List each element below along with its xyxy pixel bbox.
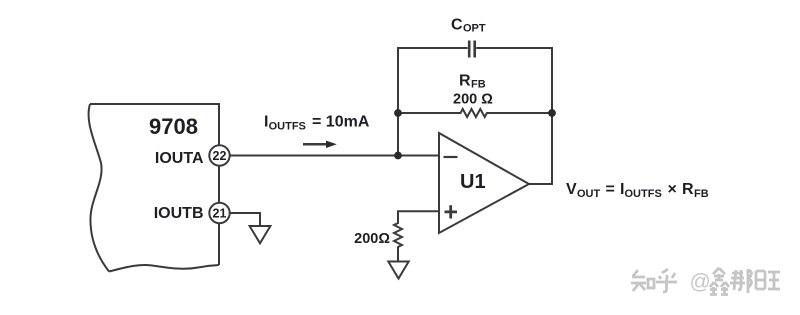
svg-text:21: 21	[213, 207, 227, 221]
svg-text:= 10mA: = 10mA	[312, 114, 370, 131]
svg-text:FB: FB	[471, 79, 486, 91]
svg-text:R: R	[682, 181, 694, 198]
svg-text:OUTFS: OUTFS	[269, 121, 306, 133]
svg-text:R: R	[459, 73, 471, 90]
svg-text:OPT: OPT	[463, 23, 486, 35]
svg-text:OUTFS: OUTFS	[625, 188, 662, 200]
svg-text:200 Ω: 200 Ω	[453, 92, 493, 108]
svg-text:200Ω: 200Ω	[354, 231, 390, 247]
svg-text:OUT: OUT	[577, 188, 601, 200]
svg-text:22: 22	[213, 149, 227, 163]
svg-text:×: ×	[668, 181, 677, 198]
svg-text:@: @	[690, 271, 711, 294]
svg-text:U1: U1	[460, 171, 486, 193]
svg-text:IOUTA: IOUTA	[155, 150, 204, 167]
svg-text:=: =	[606, 181, 615, 198]
svg-text:V: V	[566, 181, 577, 198]
svg-text:9708: 9708	[149, 114, 198, 139]
svg-text:IOUTB: IOUTB	[154, 205, 204, 222]
svg-text:FB: FB	[694, 188, 709, 200]
svg-text:C: C	[451, 17, 463, 34]
